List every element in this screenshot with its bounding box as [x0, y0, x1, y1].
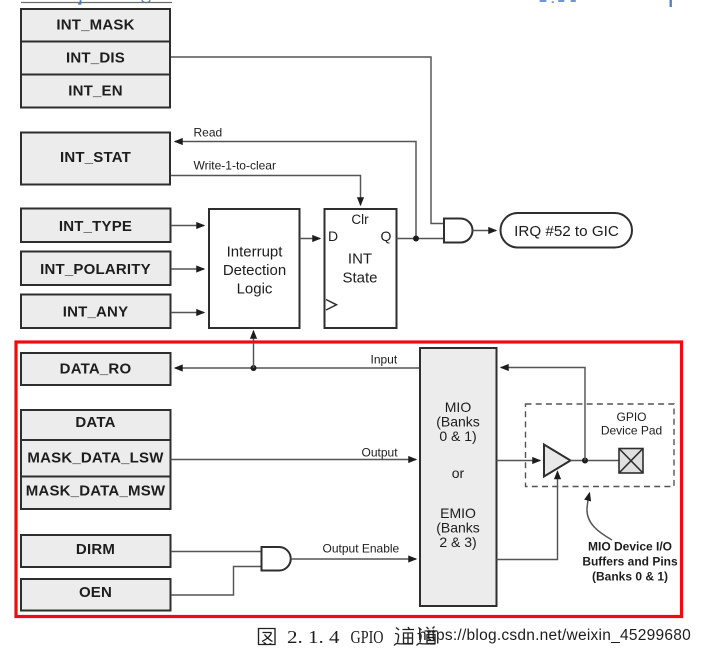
junction dot on input wire: [251, 365, 257, 371]
wire MIO to output buffer: [497, 460, 541, 462]
svg-text:Read: Read: [194, 126, 223, 140]
hanzi 图: [259, 629, 276, 645]
clock input triangle of flip-flop: [326, 300, 337, 311]
svg-text:DIRM: DIRM: [76, 541, 115, 558]
register DATA_RO: [21, 353, 171, 385]
svg-text:State: State: [342, 270, 377, 287]
GPIO device pad square: [619, 449, 643, 474]
svg-text:Input: Input: [371, 353, 398, 367]
svg-text:Write-1-to-clear: Write-1-to-clear: [194, 159, 276, 173]
register INT_TYPE: [21, 209, 171, 243]
svg-text:https://blog.csdn.net/weixin_4: https://blog.csdn.net/weixin_45299680: [418, 627, 691, 644]
wire Read (from Q junction up and into INT_STAT): [175, 142, 416, 239]
svg-text:2 & 3): 2 & 3): [439, 534, 476, 550]
svg-text:or: or: [452, 465, 465, 481]
junction dot at pad node: [582, 458, 588, 464]
output buffer triangle: [544, 445, 571, 477]
wire INT_POLARITY to detection logic: [171, 268, 204, 270]
svg-text:INT_STAT: INT_STAT: [60, 149, 131, 166]
svg-text:OEN: OEN: [79, 584, 112, 601]
wire INT_TYPE to detection logic: [171, 225, 204, 227]
svg-text:GPIO: GPIO: [351, 627, 384, 647]
svg-text:MIO Device I/O: MIO Device I/O: [588, 540, 672, 554]
wire MASK_DATA_LSW output to MIO: [171, 459, 417, 461]
wire INT_ANY to detection logic: [171, 312, 204, 314]
caption: 图 2.1.4 GPIO 通道: [259, 629, 276, 645]
register stack INT_MASK / INT_DIS / INT_EN: [21, 9, 170, 108]
wire Q output to AND gate: [397, 238, 445, 240]
register INT_STAT: [21, 133, 170, 185]
wire DIRM to AND gate G2: [171, 551, 262, 553]
svg-text:2. 1. 4: 2. 1. 4: [287, 627, 340, 647]
AND gate G2: [262, 547, 291, 571]
register DIRM: [21, 535, 171, 567]
curved callout arrow to dashed box: [587, 493, 612, 540]
wire MIO input to DATA_RO: [175, 367, 420, 369]
register INT_POLARITY: [21, 252, 171, 286]
svg-text:Output Enable: Output Enable: [323, 542, 400, 556]
wire junction up to detection logic: [253, 331, 255, 368]
svg-text:INT_DIS: INT_DIS: [66, 50, 125, 67]
svg-text:Device Pad: Device Pad: [601, 424, 662, 438]
svg-text:Interrupt: Interrupt: [227, 244, 284, 261]
wire pad node feedback into MIO input: [501, 368, 585, 461]
wire AND gate G2 to MIO: [291, 558, 416, 560]
svg-text:MASK_DATA_LSW: MASK_DATA_LSW: [27, 450, 164, 467]
wire OEN to AND gate G2: [171, 567, 262, 596]
dashed box GPIO device pad group: [526, 404, 675, 487]
svg-text:IRQ #52 to GIC: IRQ #52 to GIC: [514, 223, 619, 240]
svg-text:GPIO: GPIO: [616, 410, 646, 424]
svg-text:Detection: Detection: [223, 262, 286, 279]
IRQ #52 to GIC stadium: [501, 213, 633, 248]
gray underline of clipped heading: [21, 2, 172, 4]
svg-text:Q: Q: [381, 228, 392, 244]
MIO / EMIO block: [420, 348, 497, 606]
svg-text:INT_TYPE: INT_TYPE: [59, 218, 132, 235]
clipped blue heading fragments at top: [78, 0, 672, 7]
svg-text:DATA_RO: DATA_RO: [60, 361, 132, 378]
wire INT_DIS to AND gate top input: [171, 57, 444, 224]
svg-text:Clr: Clr: [351, 212, 369, 227]
AND gate G1: [444, 219, 473, 243]
wire output enable to buffer control: [497, 472, 558, 560]
hanzi 通: [394, 627, 414, 646]
svg-text:DATA: DATA: [75, 414, 115, 431]
svg-text:D: D: [328, 228, 338, 244]
svg-text:Buffers and Pins: Buffers and Pins: [582, 555, 678, 569]
wire detection logic to D input: [300, 238, 321, 240]
wire AND gate to IRQ: [473, 230, 497, 232]
red GPIO channel outline: [16, 342, 682, 617]
register INT_ANY: [21, 295, 171, 329]
svg-text:Logic: Logic: [237, 281, 273, 298]
hanzi 道: [417, 627, 438, 646]
svg-text:INT_EN: INT_EN: [68, 83, 123, 100]
Interrupt Detection Logic block U1: [209, 209, 300, 328]
svg-text:INT_POLARITY: INT_POLARITY: [40, 261, 151, 278]
svg-text:INT_MASK: INT_MASK: [56, 17, 134, 34]
svg-text:INT_ANY: INT_ANY: [63, 304, 129, 321]
register stack DATA / MASK_DATA_LSW / MASK_DATA_MSW: [21, 410, 171, 509]
INT State flip-flop U2: [325, 209, 397, 328]
svg-text:INT: INT: [348, 251, 372, 268]
wire buffer to pad: [571, 460, 620, 462]
svg-text:MASK_DATA_MSW: MASK_DATA_MSW: [26, 483, 166, 500]
register OEN: [21, 579, 171, 611]
svg-text:Output: Output: [362, 446, 399, 460]
wire Write-1-to-clear into Clr: [171, 176, 361, 206]
junction dot at Q/Read: [413, 236, 419, 242]
svg-text:0 & 1): 0 & 1): [439, 428, 476, 444]
svg-text:(Banks 0 & 1): (Banks 0 & 1): [592, 570, 668, 584]
